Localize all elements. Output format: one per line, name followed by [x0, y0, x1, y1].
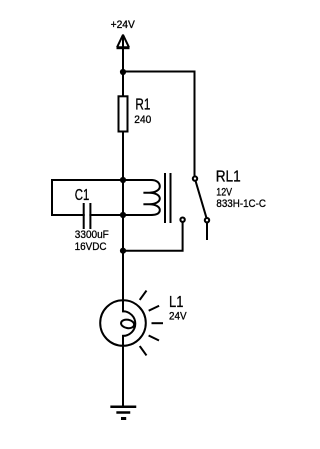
- ground bar 2: [118, 411, 129, 414]
- svg-text:24V: 24V: [169, 310, 187, 322]
- relay coil RL1: [143, 180, 159, 215]
- ground bar 3: [123, 417, 125, 420]
- wire lamp to ground: [122, 336, 124, 407]
- wire to relay contact (top horizontal + right vertical): [123, 72, 195, 177]
- capacitor C1 plates: [83, 204, 85, 228]
- svg-text:R1: R1: [135, 96, 150, 113]
- switch terminal top: [193, 176, 197, 180]
- lamp L1 bulb: [100, 300, 146, 346]
- svg-text:833H-1C-C: 833H-1C-C: [216, 198, 266, 210]
- wire main vertical top: [122, 36, 124, 96]
- switch terminal bottom left: [180, 218, 184, 222]
- svg-text:RL1: RL1: [216, 169, 241, 186]
- node junction top: [120, 69, 126, 75]
- svg-text:L1: L1: [169, 294, 183, 311]
- node junction C1 top: [120, 177, 126, 183]
- lamp ray -26deg: [150, 336, 159, 340]
- svg-text:240: 240: [134, 114, 151, 126]
- lamp ray 0deg: [153, 322, 163, 324]
- svg-text:+24V: +24V: [111, 19, 136, 31]
- svg-text:3300uF: 3300uF: [75, 229, 109, 241]
- wire C1 bottom left: [52, 214, 84, 216]
- power symbol +24V arrow: [117, 35, 129, 47]
- switch terminal bottom right: [205, 218, 209, 222]
- wire contact to lamp node: [123, 222, 183, 251]
- relay core bars: [164, 174, 166, 222]
- svg-text:C1: C1: [75, 187, 90, 204]
- ground bar 1: [112, 405, 135, 408]
- resistor R1: [119, 96, 128, 131]
- lamp ray 25deg: [150, 306, 159, 310]
- lamp filament arc: [123, 311, 135, 336]
- pin stub below right terminal: [206, 223, 208, 239]
- wire C1/coil top horizontal: [52, 179, 152, 181]
- switch lever: [196, 181, 207, 218]
- wire C1 left vertical: [51, 180, 53, 215]
- node junction lamp: [120, 248, 126, 254]
- lamp ray -54deg: [140, 347, 146, 355]
- lamp filament loop: [120, 319, 134, 330]
- node junction C1 bottom: [120, 212, 126, 218]
- wire C1 bottom right to coil: [90, 214, 151, 216]
- wire main vertical middle: [122, 132, 124, 312]
- svg-text:12V: 12V: [216, 187, 232, 199]
- svg-text:16VDC: 16VDC: [75, 241, 107, 253]
- lamp ray 54deg: [140, 291, 146, 299]
